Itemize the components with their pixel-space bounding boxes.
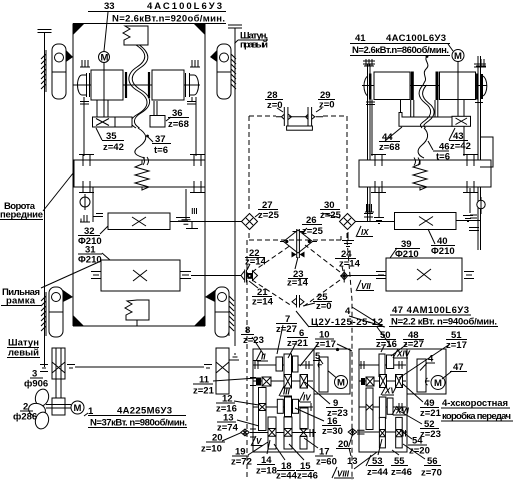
leader 15 (289, 444, 304, 460)
motor M33 shaft overlay (103, 63, 105, 118)
label IV (299, 392, 311, 403)
gear 43 box with X (452, 116, 471, 126)
crank box (74, 160, 205, 187)
svg-text:z=46: z=46 (391, 467, 412, 478)
leader 7 (277, 325, 283, 354)
X clutch in gear z70 (396, 430, 403, 437)
coupling 28-29 channel (289, 116, 308, 118)
bearing shaft III left (250, 378, 256, 386)
leader 47 (442, 371, 452, 379)
svg-text:z=10: z=10 (201, 444, 222, 455)
label XV (381, 386, 396, 396)
frame corner triangle top-right (194, 24, 205, 35)
label shatun levyi (7, 338, 40, 359)
label 16 z30 (322, 416, 343, 437)
leader 27 (255, 213, 260, 217)
dashed cardan rhombus (252, 245, 340, 306)
left drum supports (401, 100, 414, 118)
gear z16 shaft XIV (379, 354, 385, 377)
label 24 z14 (335, 249, 361, 270)
shaft IV axis (253, 406, 313, 408)
bottom spring damper box (125, 300, 149, 320)
svg-text:коробка передач: коробка передач (442, 411, 511, 422)
svg-text:XVI: XVI (395, 407, 410, 416)
svg-text:t=6: t=6 (154, 145, 168, 156)
top-right slider wedge (210, 50, 217, 62)
gear z44 tall (379, 417, 385, 448)
frame corner triangle top-left (73, 24, 84, 35)
gear z21 shaft XVI (379, 397, 386, 418)
svg-text:z=44: z=44 (276, 471, 298, 481)
leader 29 (316, 108, 322, 112)
dashed vertical to right gearbox (347, 240, 352, 480)
left pulley drum (90, 70, 127, 100)
bevel gear 22 (241, 270, 258, 283)
bottom-left slider block (49, 287, 63, 337)
svg-text:z=44: z=44 (367, 467, 389, 478)
svg-text:4А225М6У3: 4А225М6У3 (117, 406, 172, 417)
leader 40 (428, 229, 435, 244)
label 12 z16 (216, 394, 237, 415)
right drum supports (435, 100, 438, 117)
coupling 20 right diamond (348, 429, 357, 436)
top-left slider guide hatching (41, 50, 46, 92)
shaft III axis (253, 380, 313, 382)
right machine bearing hatch left (364, 59, 374, 66)
junction dot (336, 348, 339, 351)
upper shaft bearing hatch right (190, 60, 200, 67)
bottom-right slider block (215, 287, 229, 337)
bottom-left slider wedge (63, 290, 73, 302)
leader 10 (300, 344, 318, 366)
bearing output left (357, 430, 365, 434)
svg-text:t=6: t=6 (436, 152, 450, 163)
leader TS2U long 2 (352, 307, 384, 327)
bearing shaft IV right (311, 403, 314, 411)
motor M47 (431, 376, 445, 390)
svg-text:V: V (256, 437, 262, 446)
label 35 z42 (102, 131, 124, 153)
bearing right of box40 (463, 216, 473, 222)
svg-text:правый: правый (240, 40, 268, 51)
right rail of right machine (469, 56, 486, 250)
leader N22 to gearbox (377, 327, 391, 346)
leader 39 (390, 248, 397, 258)
left rail of right machine (363, 61, 375, 222)
motor M1 (71, 401, 84, 414)
frame outline (73, 24, 205, 327)
label 41 and motor data right (350, 33, 450, 56)
svg-text:z=0: z=0 (267, 100, 283, 111)
coupling 25 (292, 295, 304, 308)
bearing hatch on right machine left rail (365, 204, 374, 212)
bearing shaft V left (250, 429, 256, 437)
label VIII (332, 467, 354, 479)
upper shaft bearing hatch left (80, 60, 90, 67)
gear shaft IV c (293, 399, 299, 413)
svg-text:z=23: z=23 (243, 335, 264, 346)
shaft right of box40 (456, 220, 480, 222)
label 20 right (336, 439, 351, 450)
crank bearing right (190, 154, 205, 193)
label 8 z23 (241, 325, 264, 346)
svg-text:4-хскоростная: 4-хскоростная (442, 398, 508, 409)
motor M33 shaft down to gear 35 (103, 63, 105, 117)
svg-text:M: M (101, 53, 109, 64)
label 2 f286 (13, 402, 37, 423)
bearing shaft XIV right (399, 361, 402, 369)
X gear shaft XV b (396, 375, 403, 388)
leader 20 right (349, 436, 353, 447)
label 46 t6 (433, 142, 450, 163)
label pilnaya ramka (1, 287, 41, 307)
svg-text:Φ210: Φ210 (431, 246, 455, 257)
label II (256, 351, 268, 362)
leader 49 (403, 384, 423, 402)
svg-text:z=72: z=72 (231, 457, 252, 468)
right machine left drum (374, 72, 412, 101)
frame corner triangle bottom-right (194, 315, 205, 326)
svg-text:z=0: z=0 (319, 100, 335, 111)
label 32 d210 (78, 226, 102, 247)
leader 31 (102, 253, 110, 260)
X gear shaft V a (269, 429, 276, 437)
X gear shaft V b (284, 429, 292, 437)
label 21 z14 (252, 287, 274, 308)
gearbox outline (253, 349, 350, 452)
label 48 z27 (403, 330, 424, 350)
label 29 z0 (318, 90, 335, 111)
top-right slider block (217, 44, 231, 99)
bearing shaft XIV left (361, 361, 364, 369)
svg-text:z=30: z=30 (322, 426, 343, 437)
leader 18 (274, 444, 285, 460)
pulley 36 bracket (150, 116, 165, 128)
svg-text:XV: XV (384, 387, 396, 396)
shaft V axis (250, 432, 316, 434)
coupling 20 left diamond (241, 429, 249, 436)
bearing at shaft 24 right (376, 272, 386, 279)
svg-text:N=37кВт. n=980об/мин.: N=37кВт. n=980об/мин. (90, 418, 187, 429)
label 33 and motor data left (88, 1, 226, 25)
right machine pulley axis (362, 85, 487, 87)
svg-text:z=70: z=70 (421, 468, 442, 479)
svg-text:41: 41 (355, 33, 366, 44)
X gear shaft V c (300, 429, 307, 437)
label 4-speed gearbox (441, 398, 513, 422)
saw frame box 31 (101, 260, 180, 291)
label 22 z14 (245, 248, 267, 268)
svg-text:z=68: z=68 (379, 142, 400, 153)
leader 46 (428, 141, 433, 150)
label 13 z74 (217, 413, 239, 434)
right drop to ground (182, 189, 197, 224)
svg-text:z=21: z=21 (287, 338, 309, 349)
gear X shaft III a (284, 375, 292, 389)
leader 37 (147, 136, 153, 142)
svg-text:z=27: z=27 (276, 324, 297, 335)
bearing right of flywheel (67, 365, 75, 369)
dashed synchronizing box (249, 116, 347, 240)
input pinion block shaft III (256, 377, 271, 386)
belt clamp on right crank box (414, 158, 420, 166)
leader vorota (43, 172, 74, 211)
label 23 z14 (287, 269, 309, 289)
leader 36 (166, 117, 171, 121)
svg-text:IX: IX (361, 228, 369, 237)
leader 17 (304, 438, 318, 448)
svg-text:z=42: z=42 (450, 141, 471, 152)
label 19 z72 (231, 447, 252, 468)
right machine belt double wavy (423, 56, 428, 85)
X gear shaft XV a (380, 375, 387, 388)
crank bearing left (79, 154, 94, 193)
frame corner triangle bottom-left (73, 315, 84, 326)
leader 11 (213, 378, 257, 381)
leader 24 (342, 266, 343, 271)
leader 56 (403, 444, 425, 459)
right pulley column of fan belt (216, 348, 229, 394)
svg-text:z=21: z=21 (420, 408, 442, 419)
shaft from box32 to bevel 27 (170, 221, 239, 223)
leader 1 to motor (84, 413, 88, 416)
svg-text:47 4АМ100L6У3: 47 4АМ100L6У3 (392, 305, 469, 316)
svg-text:M: M (434, 378, 442, 389)
bearing shaft V right (310, 429, 313, 437)
label 47 gear (450, 362, 467, 373)
bearing left of flywheel (40, 365, 48, 372)
leader 9 (305, 382, 330, 404)
label 54 z20 (408, 436, 430, 457)
svg-text:IV: IV (303, 394, 311, 403)
svg-text:z=46: z=46 (297, 471, 318, 481)
label 10 z17 (315, 330, 336, 351)
leader VIII (354, 452, 377, 469)
label 55 z46 (391, 456, 412, 478)
right machine bearing hatch right (476, 59, 486, 66)
bearing right of box31 (181, 272, 191, 279)
gear z60 upper (300, 408, 308, 429)
right coupling circle on rail (477, 197, 485, 214)
leader 53 (378, 439, 382, 455)
label 44 z68 (379, 132, 400, 153)
gear z44 shaft V (284, 417, 292, 449)
gear z27 shaft XIV (387, 355, 394, 369)
leader 6 (288, 341, 297, 358)
bearing shaft II right (306, 361, 309, 369)
svg-text:13: 13 (347, 456, 358, 467)
label 20 z10 (201, 433, 225, 455)
svg-text:z=27: z=27 (403, 339, 424, 350)
label 49 z21 (420, 398, 442, 419)
leader 48 (391, 344, 407, 356)
input pinion block shaft XV (361, 377, 374, 386)
svg-text:z=16: z=16 (376, 339, 397, 350)
ground at shaft 27 left (180, 218, 198, 229)
right crank bearing left (371, 154, 386, 193)
label XVI (392, 406, 410, 416)
label 43 z42 (449, 131, 471, 152)
bottom-right slider wedge (205, 290, 215, 302)
label 17 z60 (315, 447, 337, 468)
svg-text:Φ210: Φ210 (395, 249, 419, 260)
label 14 z18 (256, 455, 277, 477)
svg-text:z=21: z=21 (193, 386, 215, 397)
bevel gear 24 (340, 270, 349, 283)
left drum support lines (84, 97, 108, 156)
leader 50 (381, 344, 385, 352)
label 25 z0 (313, 292, 332, 312)
gear z16 shaft IV (277, 399, 283, 413)
label 28 z0 (265, 90, 283, 111)
saw frame box 39 (386, 258, 462, 291)
label 50 z16 (376, 330, 397, 350)
leader 20 left (222, 433, 241, 441)
gear z23 shaft II (276, 357, 283, 371)
pulley shaft axis (73, 84, 200, 86)
svg-text:III: III (283, 388, 290, 397)
motor 5 gear (319, 357, 328, 392)
svg-text:33: 33 (104, 1, 115, 12)
ground under bevel 30 (342, 232, 354, 247)
svg-text:ф906: ф906 (24, 379, 48, 390)
leader 12 (234, 401, 259, 405)
leader 47 text diagonal (337, 344, 352, 351)
bearing shaft II left (253, 361, 261, 370)
bevel gear 30 diamond (340, 214, 356, 230)
svg-text:VII: VII (361, 282, 372, 291)
gear z27 shaft II (284, 354, 292, 375)
motor M41 shaft down to gear 43 (457, 62, 459, 117)
motor M41 shaft overlay (457, 62, 459, 117)
crank box spring (135, 160, 149, 190)
bearing at shaft 22 left (180, 272, 190, 279)
leader from label 41 to motor (448, 44, 453, 51)
motor 47 gear (417, 359, 426, 392)
label V (251, 436, 263, 446)
svg-text:z=25: z=25 (258, 210, 280, 221)
bracket on right rail (480, 137, 493, 167)
right crank bearing right (463, 154, 478, 193)
right machine right pulley cap (476, 74, 479, 100)
svg-text:z=25: z=25 (320, 210, 342, 221)
right machine right drum (437, 72, 476, 101)
belt clamp on crank box (143, 157, 149, 165)
leader 30 (322, 213, 340, 218)
leader 44 (385, 127, 402, 141)
label 31 d210 (78, 245, 102, 266)
label 3 f906 (24, 369, 48, 390)
bearing left of box31 (91, 272, 101, 279)
label 51 z17 (446, 330, 467, 351)
top-left slider block (52, 44, 66, 99)
label 37 t6 (152, 134, 171, 156)
leader 28 (277, 108, 283, 112)
leader 32 (100, 226, 108, 234)
label 1 and motor data fan (88, 406, 187, 429)
fan shaft coupling box (46, 398, 71, 415)
top-left slider wedge (66, 50, 73, 62)
shaft from box31 to bevel 22 (191, 275, 241, 277)
shaft II axis (253, 364, 313, 366)
leader 55 (392, 450, 399, 455)
gear 35 box with X (93, 117, 116, 127)
shaft XVI axis (359, 406, 406, 408)
top spring damper box (123, 26, 148, 45)
eccentric box 40 (395, 213, 457, 230)
svg-text:z=20: z=20 (409, 446, 430, 457)
ground at right pulley top (229, 354, 239, 360)
svg-text:ф286: ф286 (13, 412, 37, 423)
belt line to right pulley (75, 366, 204, 368)
input shaft vertical (259, 388, 267, 431)
label 4 pulley (426, 354, 435, 365)
label vorota perednie (0, 201, 43, 221)
svg-text:z=25: z=25 (302, 226, 324, 237)
gear z46 lower (300, 437, 307, 450)
leader TS2U long 1 (296, 311, 309, 327)
label III (279, 386, 292, 397)
leader 16 (295, 408, 324, 421)
label TS2U-125-25-12 (309, 317, 384, 328)
belt double wavy between pulleys (129, 45, 147, 128)
central bevel pair 26-23 (280, 229, 317, 258)
leader 4 reducer (349, 316, 385, 327)
motor 5 coupling (318, 362, 337, 378)
left gate rail (38, 30, 52, 368)
svg-text:M: M (454, 51, 462, 62)
pulley 44 bracket (399, 113, 452, 127)
shaft from bevel 30 to box 40 (356, 221, 395, 223)
flywheel 3 column (52, 348, 65, 403)
leader 4 gear (420, 363, 427, 371)
svg-text:z=23: z=23 (420, 429, 441, 440)
svg-text:N=2.6кВт.n=860об/мин.: N=2.6кВт.n=860об/мин. (352, 45, 449, 56)
right machine belt single wavy to spring (418, 128, 428, 158)
leader 8 (252, 337, 264, 355)
svg-text:z=14: z=14 (245, 257, 267, 268)
label 5 (313, 351, 321, 362)
leader 52 (396, 409, 422, 424)
bottom-right slider guide hatching (229, 292, 234, 336)
leader 26 (302, 228, 307, 233)
label 30 z25 (320, 200, 342, 221)
bearing at right end (204, 365, 212, 369)
top-right slider guide hatching (231, 50, 236, 92)
label 36 z68 (168, 108, 189, 130)
fan 2 blades (27, 388, 50, 431)
motor M33 (99, 52, 110, 64)
right machine drop to ground left (374, 187, 470, 224)
leader 43 (449, 128, 455, 140)
svg-text:z=14: z=14 (339, 259, 361, 270)
svg-text:z=42: z=42 (103, 142, 124, 153)
svg-text:XIV: XIV (396, 350, 411, 359)
bottom-left slider guide hatching (41, 292, 46, 336)
gear X shaft III b (300, 375, 308, 389)
svg-text:II: II (261, 353, 266, 362)
svg-text:M: M (74, 403, 82, 414)
label 40 d210 (431, 236, 455, 257)
shaft XV axis (359, 380, 406, 382)
bearing marks on shaft 32 (176, 218, 186, 222)
right crank box (359, 160, 491, 187)
shaft into bevel 22 (192, 275, 241, 277)
svg-text:z=60: z=60 (316, 457, 337, 468)
motor 47 coupling (425, 378, 429, 385)
label 53 z44 (366, 455, 389, 478)
gear z30 shaft IV (285, 397, 292, 417)
